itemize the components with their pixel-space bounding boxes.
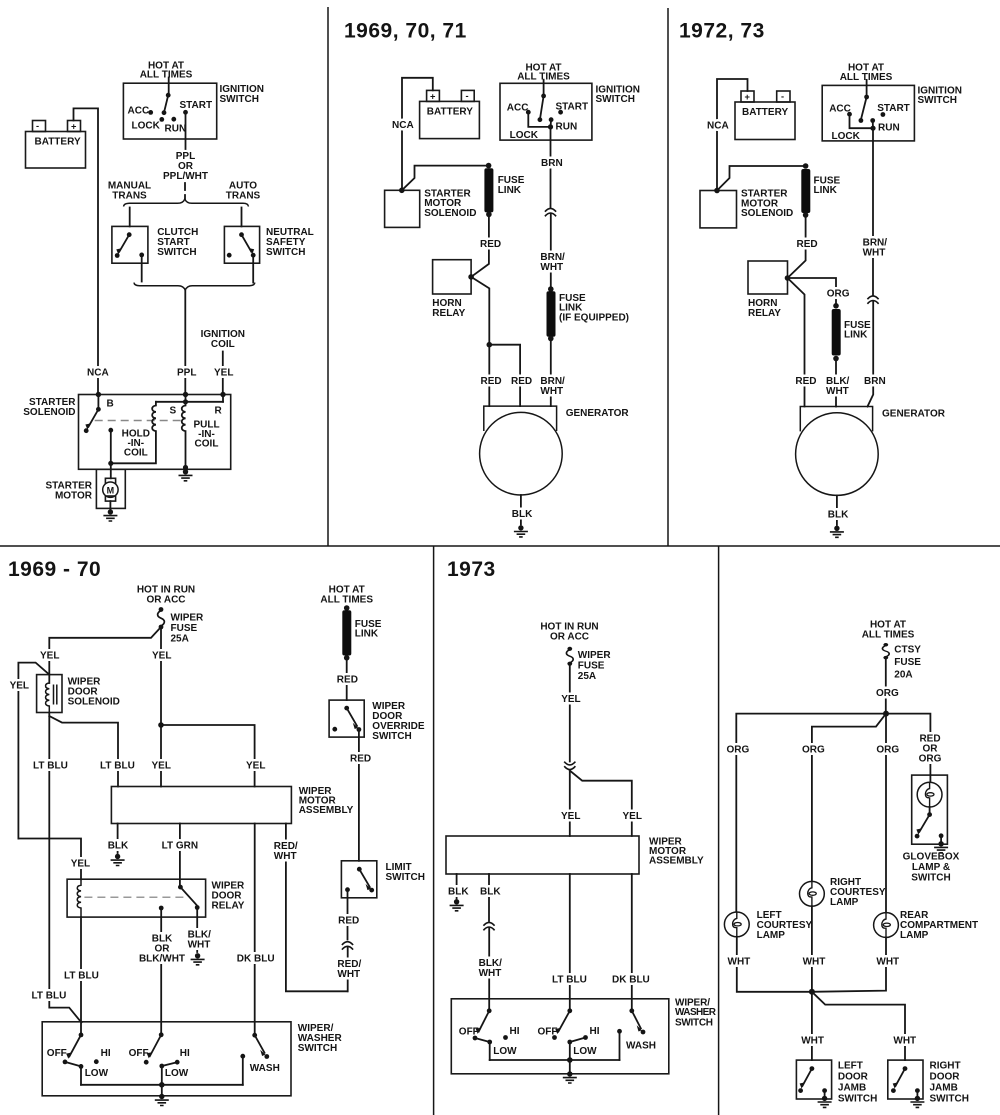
wire RUN down BRN/WHT (863, 128, 888, 295)
wiper/washer switch (451, 998, 716, 1074)
wiper door relay (67, 879, 245, 917)
svg-text:DK BLU: DK BLU (612, 975, 650, 986)
svg-text:PPL/WHT: PPL/WHT (163, 171, 208, 182)
ignition switch U-C (822, 63, 962, 142)
wire fuse link RED down to horn relay (788, 215, 818, 278)
svg-text:BATTERY: BATTERY (427, 107, 473, 118)
svg-text:FUSE: FUSE (171, 623, 198, 634)
left courtesy lamp (724, 910, 812, 941)
svg-text:-: - (466, 91, 469, 101)
svg-text:SOLENOID: SOLENOID (741, 208, 793, 219)
node HOT AT ALL TIMES (862, 620, 915, 641)
svg-text:YEL: YEL (246, 761, 265, 772)
svg-text:RED: RED (350, 754, 371, 765)
svg-text:LT GRN: LT GRN (162, 840, 198, 851)
svg-text:LEFT: LEFT (838, 1061, 863, 1072)
wire brace to neutral switch (241, 208, 243, 227)
svg-text:20A: 20A (894, 670, 912, 681)
wire RUN down BRN (541, 127, 563, 208)
svg-text:DOOR: DOOR (930, 1072, 961, 1083)
svg-text:+: + (745, 92, 751, 102)
svg-text:LAMP &: LAMP & (912, 862, 950, 873)
svg-text:BLK: BLK (828, 510, 849, 521)
svg-text:OFF: OFF (47, 1048, 67, 1059)
ground relay (191, 953, 205, 965)
battery (735, 91, 795, 140)
svg-text:RED: RED (480, 239, 501, 250)
wiper door override switch (329, 700, 425, 742)
svg-text:ASSEMBLY: ASSEMBLY (299, 805, 354, 816)
svg-text:OFF: OFF (459, 1027, 479, 1038)
connector BLK/WHT inline (483, 922, 494, 930)
switch 1 OFF/LOW/HI (47, 1033, 111, 1085)
node IGNITION COIL (201, 329, 245, 350)
svg-text:ORG: ORG (802, 744, 825, 755)
svg-text:OFF: OFF (538, 1027, 558, 1038)
svg-text:ALL TIMES: ALL TIMES (320, 595, 373, 606)
wire BLK/WHT to switch (479, 928, 503, 1011)
svg-text:HI: HI (180, 1048, 190, 1059)
svg-text:1969 - 70: 1969 - 70 (8, 558, 101, 581)
wire horn relay to generator RED (471, 277, 502, 406)
ground right door jamb (910, 1096, 924, 1108)
svg-text:WHT: WHT (479, 968, 502, 979)
svg-text:RED: RED (338, 916, 359, 927)
svg-text:GENERATOR: GENERATOR (566, 408, 630, 419)
svg-text:BRN: BRN (541, 158, 563, 169)
wire WHT to right door jamb switch (812, 992, 916, 1060)
wire fuse YEL to wiper door solenoid (40, 627, 161, 675)
svg-text:BRN: BRN (864, 376, 886, 387)
clutch start switch (112, 226, 198, 263)
wire WHT right lamp down (803, 906, 826, 992)
wire limit switch RED down (338, 890, 359, 940)
wire RED/WHT to junction (337, 948, 361, 992)
wire ORG to rear lamp (876, 714, 899, 913)
svg-text:LINK: LINK (844, 330, 868, 341)
svg-text:COIL: COIL (211, 339, 235, 350)
wire solenoid LT BLU to wiper motor (49, 716, 135, 787)
ignition switch U-A (123, 61, 264, 140)
wire solenoid LT BLU down-left (32, 713, 82, 1023)
svg-text:ORG: ORG (727, 744, 750, 755)
svg-text:YEL: YEL (152, 761, 171, 772)
svg-text:YEL: YEL (40, 651, 59, 662)
node HOT IN RUN OR ACC (137, 585, 195, 606)
svg-text:NCA: NCA (87, 368, 109, 379)
svg-text:LT BLU: LT BLU (32, 991, 67, 1002)
svg-text:RUN: RUN (878, 123, 900, 134)
switch 3 WASH (617, 1008, 656, 1060)
svg-text:WHT: WHT (188, 939, 211, 950)
node PPL OR PPL/WHT (163, 151, 208, 199)
svg-text:SWITCH: SWITCH (386, 872, 425, 883)
svg-text:25A: 25A (578, 671, 596, 682)
horn relay (748, 261, 790, 319)
starter motor solenoid (700, 188, 793, 228)
wiper motor assembly (111, 786, 353, 824)
ground glovebox (934, 841, 948, 853)
svg-text:RED: RED (795, 376, 816, 387)
ground BLK (450, 899, 464, 911)
wire YEL branch far-left (10, 663, 50, 839)
rear compartment lamp (874, 910, 979, 941)
svg-text:LAMP: LAMP (830, 897, 859, 908)
svg-text:SWITCH: SWITCH (596, 94, 635, 105)
limit switch (341, 861, 425, 898)
starter solenoid (23, 392, 230, 470)
svg-text:LT BLU: LT BLU (33, 761, 68, 772)
svg-text:SOLENOID: SOLENOID (424, 208, 476, 219)
wiper motor assembly (446, 836, 704, 874)
svg-text:START: START (877, 103, 910, 114)
wire clutch switch down (141, 255, 143, 282)
wire YEL junction to wiper motor (152, 722, 171, 786)
section divider vertical 4 (bottom row) (718, 546, 720, 1115)
wire BLK to connector (480, 874, 501, 921)
wire RED/WHT to limit switch (274, 824, 348, 992)
svg-text:(IF EQUIPPED): (IF EQUIPPED) (559, 312, 629, 323)
ignition switch U-B (500, 63, 640, 142)
svg-text:LOCK: LOCK (132, 121, 161, 132)
generator (480, 406, 630, 495)
switch 3 WASH (240, 1033, 279, 1085)
wire relay BLK/WHT to ground (188, 908, 212, 953)
svg-text:-: - (36, 121, 39, 131)
svg-text:ALL TIMES: ALL TIMES (862, 630, 915, 641)
svg-text:LAMP: LAMP (757, 930, 786, 941)
svg-text:MOTOR: MOTOR (55, 491, 93, 502)
svg-text:TRANS: TRANS (226, 191, 261, 202)
junction ORG (883, 711, 889, 717)
svg-text:25A: 25A (171, 634, 189, 645)
svg-text:WHT: WHT (540, 262, 563, 273)
fuse link FL-C (801, 163, 840, 218)
wire brace to clutch switch (129, 208, 131, 227)
fuse link FL-D (342, 605, 382, 660)
svg-text:WHT: WHT (274, 851, 297, 862)
svg-text:HI: HI (101, 1048, 111, 1059)
wire relay coil LT BLU down (64, 917, 99, 1035)
ground BLK (111, 854, 125, 866)
wire solenoid to fuse link (717, 166, 806, 191)
battery (26, 121, 86, 169)
wire ORG to right courtesy lamp (802, 714, 886, 882)
wire RED override to limit switch (350, 730, 371, 861)
svg-text:ORG: ORG (876, 688, 899, 699)
svg-text:WASH: WASH (250, 1063, 280, 1074)
horn relay (432, 260, 474, 319)
glovebox lamp and switch (912, 775, 948, 844)
svg-text:YEL: YEL (561, 694, 580, 705)
svg-text:YEL: YEL (623, 811, 642, 822)
ground under starter motor (103, 509, 117, 521)
section divider vertical 2 (top row) (667, 8, 669, 546)
svg-text:-: - (781, 92, 784, 102)
svg-text:PPL: PPL (177, 368, 196, 379)
svg-text:RELAY: RELAY (432, 308, 465, 319)
svg-text:SWITCH: SWITCH (838, 1094, 877, 1105)
svg-text:WHT: WHT (893, 1036, 916, 1047)
svg-text:WASH: WASH (626, 1040, 656, 1051)
connector BRN inline (867, 296, 878, 304)
svg-text:1969, 70, 71: 1969, 70, 71 (344, 20, 467, 43)
node HOT IN RUN OR ACC (540, 622, 598, 643)
wire generator BLK to ground (828, 495, 849, 525)
wire RED to override switch (337, 658, 358, 700)
wire DK BLU to switch (612, 874, 650, 1011)
svg-text:LOW: LOW (165, 1068, 189, 1079)
wire ORG to left courtesy lamp (727, 714, 887, 912)
wire battery+ to starter solenoid B (NCA) (74, 108, 109, 394)
left door jamb switch (796, 1060, 877, 1104)
section divider vertical 3 (bottom row) (433, 546, 435, 1115)
svg-text:BLK: BLK (512, 509, 533, 520)
wire YEL to relay coil (18, 839, 90, 880)
section divider horizontal (0, 545, 1000, 547)
wire YEL branch right to wiper motor (161, 725, 265, 787)
wire fuse to generator BLK/WHT (826, 359, 850, 407)
svg-text:ORG: ORG (827, 288, 850, 299)
wire solenoid to fuse link (402, 166, 489, 191)
svg-text:LOW: LOW (573, 1046, 597, 1057)
svg-text:COIL: COIL (195, 439, 219, 450)
svg-text:WHT: WHT (337, 969, 360, 980)
fuse link FL-B (484, 163, 524, 217)
svg-text:GENERATOR: GENERATOR (882, 409, 946, 420)
svg-text:NCA: NCA (392, 120, 414, 131)
svg-text:WHT: WHT (801, 1036, 824, 1047)
wire hold coil to starter motor (110, 463, 112, 478)
svg-text:ASSEMBLY: ASSEMBLY (649, 856, 704, 867)
right door jamb switch (888, 1060, 969, 1104)
svg-text:YEL: YEL (10, 681, 29, 692)
svg-text:BLK: BLK (448, 886, 469, 897)
svg-text:FUSE: FUSE (578, 661, 605, 672)
wire BLK to ground (108, 824, 129, 854)
svg-text:LT BLU: LT BLU (100, 761, 135, 772)
svg-text:SWITCH: SWITCH (930, 1094, 969, 1105)
svg-text:BLK/WHT: BLK/WHT (139, 953, 185, 964)
svg-text:YEL: YEL (71, 859, 90, 870)
svg-text:LT BLU: LT BLU (552, 975, 587, 986)
svg-text:B: B (107, 399, 114, 410)
svg-text:RIGHT: RIGHT (930, 1061, 961, 1072)
svg-text:WHT: WHT (826, 386, 849, 397)
wiper/washer switch (42, 1022, 342, 1096)
wire DK BLU to wash switch (237, 824, 275, 1036)
ground wiper/washer switch (563, 1071, 577, 1083)
junction WHT (809, 989, 815, 995)
svg-text:1972, 73: 1972, 73 (679, 20, 765, 43)
svg-text:COIL: COIL (124, 448, 148, 459)
starter motor solenoid (385, 188, 477, 228)
ground left door jamb (818, 1096, 832, 1108)
svg-text:RUN: RUN (165, 124, 187, 135)
brace top (124, 199, 249, 207)
svg-text:ORG: ORG (876, 744, 899, 755)
svg-text:RUN: RUN (556, 122, 578, 133)
svg-text:SWITCH: SWITCH (220, 94, 259, 105)
wire ORG to junction (876, 658, 899, 714)
wire RED branch to generator (487, 342, 533, 406)
section divider vertical 1 (top row) (327, 7, 329, 546)
node HOT AT ALL TIMES right (320, 585, 373, 606)
wire WHT to left door jamb switch (801, 992, 824, 1060)
svg-text:+: + (430, 92, 436, 102)
svg-text:JAMB: JAMB (930, 1083, 958, 1094)
ctsy fuse 20A (882, 643, 921, 680)
wire START to PPL (185, 112, 187, 149)
svg-text:SWITCH: SWITCH (266, 247, 305, 258)
svg-text:SWITCH: SWITCH (298, 1043, 337, 1054)
svg-text:SOLENOID: SOLENOID (23, 407, 75, 418)
svg-text:DK BLU: DK BLU (237, 954, 275, 965)
svg-text:SWITCH: SWITCH (918, 95, 957, 106)
switch 2 OFF/LOW/HI (129, 1032, 190, 1084)
wire battery+ NCA to starter motor solenoid (707, 79, 748, 191)
wire YEL down to connector (561, 664, 580, 762)
wire YEL branch right to wiper motor (570, 771, 642, 836)
wire WHT left lamp down (728, 937, 812, 992)
generator (796, 407, 946, 496)
wiper fuse 25A (566, 647, 611, 682)
wiper door solenoid (37, 675, 120, 713)
svg-text:CTSY: CTSY (894, 645, 921, 656)
fuse link FL-B2 (if equipped) (547, 286, 630, 341)
svg-text:FUSE: FUSE (894, 657, 921, 668)
svg-text:RELAY: RELAY (748, 308, 781, 319)
ground under solenoid (179, 469, 193, 481)
svg-text:M: M (107, 485, 115, 495)
svg-text:HI: HI (590, 1026, 600, 1037)
svg-text:ORG: ORG (919, 754, 942, 765)
wire battery+ NCA to starter motor solenoid (392, 78, 433, 191)
ground under generator (830, 526, 844, 538)
svg-text:BATTERY: BATTERY (742, 107, 788, 118)
svg-text:ALL TIMES: ALL TIMES (140, 70, 193, 81)
svg-text:S: S (170, 406, 177, 417)
svg-text:LT BLU: LT BLU (64, 970, 99, 981)
wire RED OR ORG to glovebox (886, 714, 942, 776)
wire WHT rear lamp to junction (812, 937, 899, 991)
wire horn relay to ctsy fuse link ORG (788, 278, 850, 306)
svg-text:RED: RED (511, 376, 532, 387)
battery (420, 90, 480, 138)
svg-text:R: R (215, 406, 223, 417)
svg-text:YEL: YEL (214, 368, 233, 379)
svg-text:LOW: LOW (85, 1068, 109, 1079)
connector BRN inline (545, 208, 556, 216)
svg-text:1973: 1973 (447, 558, 496, 581)
wire LT GRN to relay (162, 824, 198, 888)
switch 2 OFF/LOW/HI (538, 1008, 600, 1060)
svg-text:LINK: LINK (498, 185, 522, 196)
fuse link FL-C2 (832, 303, 871, 361)
wire neutral switch down (252, 255, 254, 282)
wire BRN/WHT to fuse link 2 (540, 214, 565, 289)
svg-text:WHT: WHT (876, 957, 899, 968)
svg-text:LOCK: LOCK (510, 130, 539, 141)
svg-text:YEL: YEL (152, 651, 171, 662)
wire BRN to generator (864, 302, 886, 407)
svg-text:BLK: BLK (108, 840, 129, 851)
wire BLK to ground (448, 874, 469, 899)
svg-text:JAMB: JAMB (838, 1083, 866, 1094)
svg-text:ACC: ACC (507, 103, 529, 114)
node MANUAL TRANS (108, 181, 151, 202)
svg-text:BATTERY: BATTERY (35, 137, 81, 148)
svg-text:LAMP: LAMP (900, 930, 929, 941)
svg-text:+: + (71, 122, 77, 132)
svg-text:WHT: WHT (803, 957, 826, 968)
svg-text:HI: HI (510, 1026, 520, 1037)
svg-text:RELAY: RELAY (212, 901, 245, 912)
wire fuse2 to generator BRN/WHT (540, 339, 565, 407)
svg-text:SWITCH: SWITCH (911, 872, 950, 883)
node AUTO TRANS (226, 181, 261, 202)
svg-text:OR ACC: OR ACC (146, 595, 185, 606)
wire horn relay to generator RED (788, 278, 817, 407)
brace bottom (134, 283, 255, 291)
svg-text:OFF: OFF (129, 1048, 149, 1059)
wire fuse YEL down to junction (152, 627, 171, 725)
svg-text:WHT: WHT (728, 957, 751, 968)
svg-text:LINK: LINK (355, 629, 379, 640)
svg-text:DOOR: DOOR (838, 1072, 869, 1083)
svg-text:LINK: LINK (814, 185, 838, 196)
svg-text:SWITCH: SWITCH (675, 1017, 713, 1028)
connector YEL inline (564, 762, 575, 770)
wire ignition coil YEL to solenoid (214, 352, 233, 395)
ground under generator (514, 525, 528, 537)
svg-text:WIPER: WIPER (578, 650, 612, 661)
ground wiper/washer switch (155, 1094, 169, 1106)
neutral safety switch (224, 226, 313, 263)
svg-text:GLOVEBOX: GLOVEBOX (903, 851, 960, 862)
svg-text:OR ACC: OR ACC (550, 632, 589, 643)
svg-text:SOLENOID: SOLENOID (68, 697, 120, 708)
switch 1 OFF/LOW/HI (459, 1008, 520, 1060)
starter motor (46, 469, 126, 509)
svg-text:RED: RED (481, 376, 502, 387)
svg-text:WHT: WHT (540, 386, 563, 397)
wire YEL to wiper motor (561, 771, 580, 836)
svg-text:START: START (180, 100, 213, 111)
right courtesy lamp (800, 877, 886, 908)
svg-text:RED: RED (337, 674, 358, 685)
svg-text:SWITCH: SWITCH (372, 731, 411, 742)
wire switch common bus (81, 1082, 243, 1094)
svg-text:NCA: NCA (707, 120, 729, 131)
svg-text:RED: RED (797, 239, 818, 250)
svg-text:BLK: BLK (480, 886, 501, 897)
wire fuse link RED down to horn relay (471, 214, 501, 277)
svg-text:YEL: YEL (561, 811, 580, 822)
connector RED/WHT inline (342, 942, 353, 950)
svg-text:WHT: WHT (863, 248, 886, 259)
svg-text:SWITCH: SWITCH (157, 247, 196, 258)
svg-text:TRANS: TRANS (112, 191, 147, 202)
svg-text:LOCK: LOCK (832, 131, 861, 142)
wire LT BLU to switch (552, 874, 587, 1011)
svg-text:WIPER: WIPER (171, 613, 205, 624)
svg-text:ACC: ACC (128, 106, 150, 117)
label glovebox (903, 851, 960, 883)
wire relay BLK OR BLK/WHT down (139, 908, 185, 1035)
svg-text:LOW: LOW (493, 1046, 517, 1057)
wire switch common bus (490, 1057, 620, 1071)
